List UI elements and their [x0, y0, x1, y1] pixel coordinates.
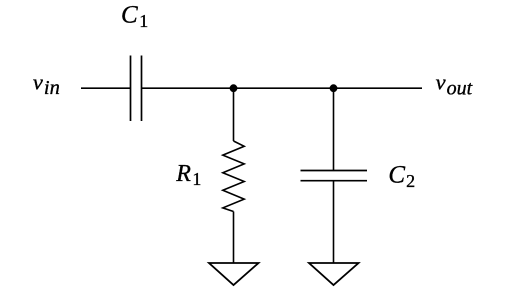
- wire: node B to v_out lead: [334, 87, 423, 89]
- resistor R1: [223, 141, 244, 212]
- svg-text:vout: vout: [436, 69, 473, 99]
- capacitor C1: [131, 56, 142, 122]
- ground (under R1): [209, 263, 259, 285]
- svg-text:vin: vin: [33, 69, 60, 99]
- wire: node B down to C2 top plate: [333, 88, 335, 170]
- wire: C2 bottom plate to ground: [333, 181, 335, 263]
- svg-text:C2: C2: [388, 162, 415, 192]
- wire: node A down to R1 top: [233, 88, 235, 141]
- wire: R1 bottom to ground: [233, 212, 235, 264]
- svg-text:R1: R1: [175, 161, 201, 189]
- node B (junction of C2, v_out): [330, 84, 338, 92]
- wire: v_in lead to C1 left plate: [81, 87, 131, 89]
- ground (under C2): [309, 263, 359, 285]
- wire: node A to node B: [234, 87, 334, 89]
- wire: C1 right plate to node A: [142, 87, 234, 89]
- svg-text:C1: C1: [121, 1, 148, 31]
- node A (junction of C1, R1): [230, 84, 238, 92]
- capacitor C2: [301, 171, 368, 181]
